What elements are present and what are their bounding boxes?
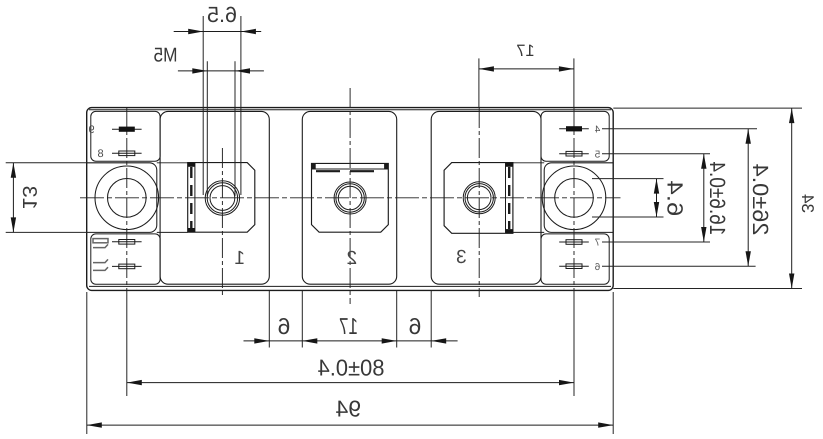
housing section 1 (around terminal 1): [160, 111, 269, 284]
housing section 3 (around terminal 3): [431, 111, 541, 284]
left auxiliary-pin box bottom: [91, 234, 160, 284]
dim 6.5 extension lines (terminal-1 hole diameter): [202, 16, 204, 195]
terminal 3 clamp bar edge: [505, 163, 507, 234]
right mounting hole outer circle: [542, 166, 606, 230]
svg-text:8: 8: [97, 148, 103, 160]
terminal 1 vertical centerline: [221, 148, 223, 297]
dim 13 extension lines (flange width): [6, 162, 87, 164]
dim 94 line with arrows: [87, 424, 613, 426]
svg-text:16.6±0.4: 16.6±0.4: [705, 161, 730, 235]
terminal 1 clamp dashed line: [190, 167, 192, 228]
svg-text:6.4: 6.4: [662, 180, 687, 216]
svg-text:4: 4: [594, 125, 600, 136]
svg-text:17: 17: [339, 313, 358, 339]
terminal 3 clamp dashed line: [508, 167, 510, 229]
dim 13 line with arrows: [12, 163, 14, 233]
dim 94 extension lines (overall length): [86, 292, 88, 434]
bottom chain dim extension lines 6/17/6: [268, 291, 270, 348]
svg-text:6.5: 6.5: [207, 2, 237, 27]
terminal 2 clamp dashed line: [316, 170, 384, 172]
module bottom edge extension line right: [613, 288, 802, 290]
terminal 3 vertical centerline: [478, 108, 480, 297]
svg-text:M5: M5: [154, 44, 178, 66]
left mounting hole bore circle: [108, 179, 147, 218]
terminal 2 vertical centerline: [349, 88, 351, 304]
pin 6 (right bottom row): [559, 265, 589, 267]
svg-text:34: 34: [798, 194, 817, 213]
case inner top edge line: [89, 109, 611, 111]
horizontal main centerline: [80, 197, 621, 199]
dim 17 top extension lines: [478, 58, 480, 108]
module top edge extension line right: [613, 107, 802, 109]
terminal 2 washer circles: [334, 182, 366, 214]
dim 6.5 line with outside arrows: [174, 31, 262, 33]
pin label 11 (rotated): [93, 259, 108, 270]
pin 11 (left bottom row): [112, 265, 142, 267]
pin 8 (left second row): [112, 152, 142, 154]
dim 34 line with arrows (module width): [791, 108, 793, 288]
svg-text:94: 94: [335, 395, 361, 421]
right pin-row extension lines: [602, 128, 757, 130]
terminal 2 clamp bar edge: [312, 168, 389, 170]
dim 80 extension lines (hole centers): [126, 291, 128, 396]
case inner bottom edge line: [89, 285, 611, 287]
housing section 2 (around terminal 2): [302, 111, 396, 284]
pin 10 (left third row): [112, 241, 142, 243]
terminal 1 block: [188, 163, 255, 233]
pin 9 (left top row, filled): [112, 128, 142, 130]
left auxiliary-pin box top: [91, 111, 160, 161]
svg-text:5: 5: [594, 149, 600, 160]
pin 5 (right second row): [559, 153, 589, 155]
left hole vertical centerline: [126, 108, 128, 290]
dim M5 extension lines (thread): [206, 61, 208, 196]
dim 26±0.4 line with arrows: [747, 129, 749, 266]
svg-text:1: 1: [234, 248, 245, 269]
right mounting flange plate: [544, 163, 613, 233]
pin 7 (right third row): [559, 241, 589, 243]
svg-text:26±0.4: 26±0.4: [748, 164, 773, 236]
dim 17 top line with arrows: [479, 68, 574, 70]
dim 80±0.4 line with arrows: [127, 382, 574, 384]
pin label 10 (rotated): [93, 239, 108, 248]
right flange to terminal-3 ledge lines: [513, 162, 544, 164]
right auxiliary-pin box bottom: [541, 234, 609, 284]
pin 4 (right top row, filled): [559, 128, 589, 130]
terminal 1 washer circles: [205, 181, 239, 215]
left mounting flange plate: [87, 163, 157, 233]
dim 6.4 line with arrows (hole diameter): [656, 179, 658, 217]
terminal 3 block: [444, 163, 513, 234]
right auxiliary-pin box top: [541, 111, 609, 161]
terminal 3 washer circles: [463, 182, 495, 214]
svg-text:80±0.4: 80±0.4: [317, 354, 384, 380]
left flange to terminal-1 ledge lines: [157, 162, 188, 164]
bottom chain dim line with arrows: [244, 340, 458, 342]
svg-text:6: 6: [278, 313, 291, 339]
module case outline: [87, 108, 614, 291]
svg-text:17: 17: [516, 42, 534, 60]
terminal 1 clamp bar edge: [194, 163, 196, 233]
svg-text:13: 13: [18, 186, 40, 210]
svg-text:9: 9: [88, 124, 94, 136]
left mounting hole outer circle: [95, 166, 159, 230]
svg-text:2: 2: [347, 248, 358, 269]
svg-text:7: 7: [594, 238, 600, 249]
svg-text:6: 6: [594, 262, 600, 273]
mounting hole tangent extension lines (dia 6.4): [592, 178, 664, 180]
right mounting hole bore circle: [555, 179, 594, 218]
dim M5 line with outside arrows: [178, 70, 264, 72]
svg-text:3: 3: [456, 247, 467, 268]
right hole vertical centerline: [573, 108, 575, 290]
svg-text:6: 6: [409, 313, 422, 339]
terminal 2 block: [312, 163, 389, 232]
dim 16.6±0.4 line with arrows: [703, 154, 705, 242]
